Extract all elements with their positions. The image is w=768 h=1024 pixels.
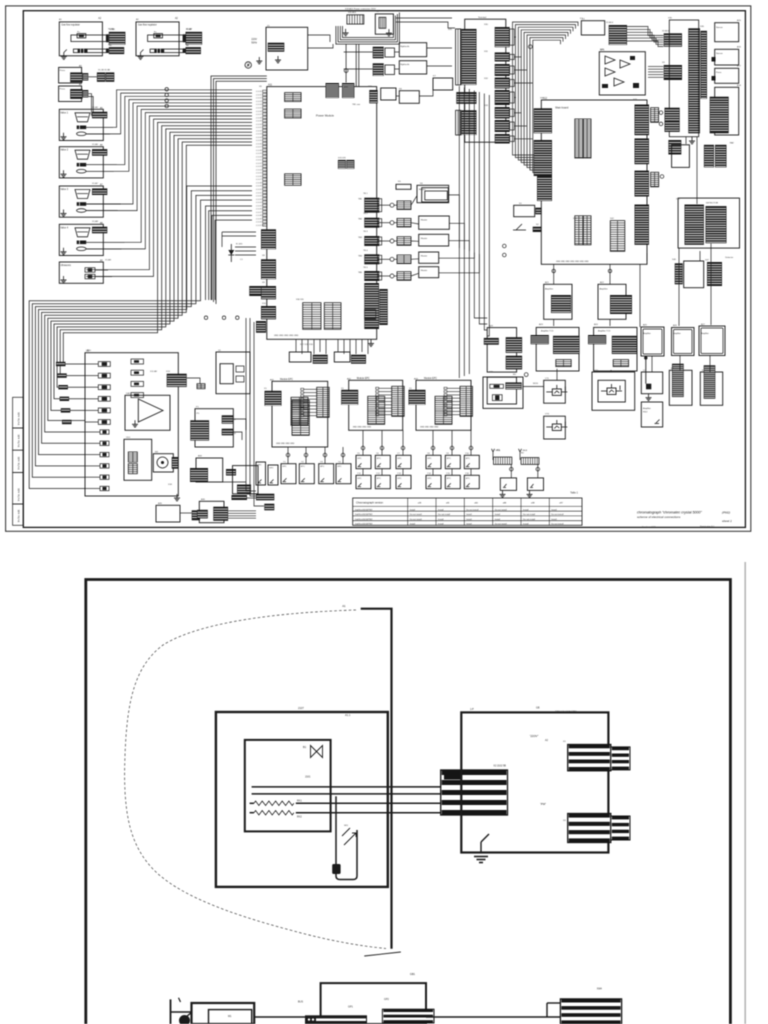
terminal pair 4 wire [514, 82, 532, 84]
transistor box t2 inner [598, 380, 625, 402]
svg-text:Install: Install [466, 513, 472, 516]
connector X51 [664, 65, 682, 80]
pump inner box [209, 1010, 252, 1024]
svg-text:X19 A11 Power connector 220V: X19 A11 Power connector 220V [345, 8, 376, 11]
svg-text:Install: Install [466, 518, 472, 521]
terminal block box [465, 19, 506, 142]
right edge connector row 2 [364, 218, 379, 228]
box under module2 r1 x396 [396, 455, 411, 468]
ground opamp [132, 420, 138, 427]
svg-text:J-1.09: J-1.09 [256, 218, 263, 220]
svg-text:Heater: Heater [421, 219, 428, 222]
dark pill row2 box A [78, 49, 88, 53]
ground mid [343, 29, 349, 36]
svg-text:J-1.08: J-1.08 [256, 183, 263, 185]
table caption [570, 491, 578, 494]
svg-text:X1.A7: X1.A7 [92, 182, 99, 185]
mid dark connector pair [237, 485, 251, 495]
wire row 2 to right bus [449, 223, 464, 249]
left connector row 1 [56, 362, 66, 366]
bottom chain box 2 [199, 501, 224, 522]
switch symbol [516, 224, 522, 230]
svg-text:EPC: EPC [320, 466, 325, 468]
P-box right conn 2 [222, 429, 234, 436]
rod sensor 2 box [700, 372, 722, 405]
terminal left comb C [456, 110, 461, 135]
left edge double column mid [534, 140, 552, 176]
svg-text:Press: Press [60, 88, 66, 91]
wires detector to amplifiers [678, 249, 680, 327]
mating connector row 4 [378, 255, 382, 263]
svg-text:Power Module: Power Module [316, 114, 334, 118]
svg-text:J-1.01: J-1.01 [256, 95, 263, 97]
svg-text:X1.A6: X1.A6 [92, 143, 99, 146]
Y antenna symbol 2 [519, 449, 522, 456]
cable row2 in box B [150, 49, 183, 53]
svg-text:J-1.07: J-1.07 [256, 147, 263, 149]
small dark square left of right box3 [712, 76, 716, 81]
controller right connector 1b [611, 747, 630, 770]
transformer hatch in optocoupler [379, 17, 386, 28]
title block text [637, 511, 732, 529]
pill row1 in Valve 4 [77, 241, 87, 245]
module box M1 [272, 381, 328, 447]
connector at top-right of Valve 4 [92, 227, 107, 234]
pill lower row 6 in igniter box [100, 486, 109, 490]
svg-text:“220V”: “220V” [529, 734, 538, 738]
M3 right column [460, 386, 473, 416]
M1 left edge connector [265, 391, 282, 406]
svg-text:J-1.03: J-1.03 [256, 166, 263, 168]
box under module2 r1 x375.3 [375, 455, 390, 468]
mid connector row 2 [397, 218, 411, 227]
svg-text:EPC: EPC [428, 478, 433, 480]
resistor r2 [492, 395, 502, 401]
svg-text:X1 A9: X1 A9 [186, 28, 193, 31]
svg-text:J-1.02: J-1.02 [256, 98, 263, 100]
igniter wire with dot [644, 356, 647, 384]
oscillator inner box [220, 364, 233, 384]
wire fan to valve boxes [86, 90, 252, 277]
trapezoid connector in Valve 2 [75, 150, 90, 159]
lower cluster box [684, 261, 704, 288]
svg-text:EPC: EPC [398, 458, 403, 460]
pill row1 ultrasonic [85, 268, 95, 273]
left connector row 2 [57, 373, 66, 377]
bottom chain box 1 [156, 505, 180, 522]
main board bottom inner labels [556, 261, 589, 263]
svg-text:R LED: R LED [236, 244, 243, 246]
ground optocoupler [386, 29, 392, 36]
svg-text:Install: Install [438, 523, 444, 526]
M1 right pin fan [301, 388, 317, 416]
inner column pair right [324, 303, 341, 330]
crystal oscillator box [599, 52, 645, 95]
connector at top-right of Valve 1 [92, 112, 107, 119]
relay box row 5 [419, 267, 439, 278]
connector at top-right of Valve 2 [92, 149, 107, 156]
svg-text:Amplifier: Amplifier [673, 332, 681, 335]
svg-text:TB 1: TB 1 [363, 193, 368, 195]
resistor box right inner [487, 377, 516, 404]
wire row 1 to right bus [449, 195, 460, 248]
lower cluster column a [675, 263, 683, 284]
junction circle row 5 [390, 274, 394, 278]
svg-text:Gas flow regulator: Gas flow regulator [138, 24, 157, 27]
svg-text:2nd/Krist5000/PM2: 2nd/Krist5000/PM2 [355, 518, 374, 521]
svg-text:SH-B: SH-B [523, 450, 528, 452]
ground in Valve 2 [61, 170, 67, 177]
left bottom connector pair 2 [264, 504, 274, 511]
FPTC right conn [226, 469, 236, 476]
wires row 2 [379, 222, 390, 224]
rod sensor 2 rod [704, 365, 716, 398]
wire row 4 to right bus [439, 253, 475, 259]
wires K1 cluster [627, 27, 663, 47]
wire FPTC to right [223, 481, 246, 483]
svg-text:Inv.No. subl.: Inv.No. subl. [18, 509, 21, 522]
opamp 1 in crystal box [605, 56, 615, 64]
svg-text:EPC: EPC [358, 478, 363, 480]
small conn mid-left c [285, 174, 302, 186]
wires tall box down to detector [685, 137, 687, 144]
P-right edge column 1 [506, 337, 522, 353]
TRM box 3 [433, 78, 453, 90]
right edge connector row 3 [364, 236, 379, 246]
wire lower row 1 [85, 431, 100, 433]
diode component cluster left of power module [222, 232, 256, 262]
igniter amp box [641, 372, 662, 394]
svg-text:50Hz: 50Hz [251, 42, 257, 45]
pill row1 in Valve 2 [77, 163, 87, 167]
wires row 5 [379, 275, 390, 277]
amp row2 b bottom conn [613, 360, 628, 367]
svg-text:Developer KXT: Developer KXT [642, 527, 656, 529]
svg-text:J-1.03: J-1.03 [256, 134, 263, 136]
svg-text:X1.A5: X1.A5 [92, 106, 99, 109]
box under module2 r2 x396 [396, 475, 411, 488]
wires out of Valve 2 [86, 164, 117, 166]
column in right tall box [710, 97, 729, 134]
transistor box t3 [544, 416, 566, 439]
terminal right connector pair 8 [495, 134, 510, 144]
amp row2 a dark block [553, 336, 580, 354]
mating connector D [83, 90, 89, 97]
wires out of Valve 3 [86, 203, 121, 205]
svg-text:Install: Install [523, 523, 529, 526]
svg-text:X11 A9: X11 A9 [150, 370, 158, 373]
svg-text:J-1.02: J-1.02 [256, 163, 263, 165]
terminal right connector pair 3 [495, 64, 510, 76]
box under module3 r2 x464.3 [464, 475, 479, 488]
ultrasonic box A9 [59, 262, 103, 283]
right edge dark block 1 [635, 105, 650, 136]
opamp 2 in crystal box [605, 68, 615, 76]
outside conn left [535, 208, 541, 215]
top small box on edge [396, 184, 411, 189]
terminal left column B [456, 92, 476, 104]
transistor box t1 [544, 380, 566, 403]
terminal pair 5 wire [514, 97, 516, 99]
GB box [321, 983, 426, 1024]
page 2 drawing frame [86, 580, 731, 1024]
relay box row 4 [419, 252, 439, 263]
FPTC box [196, 458, 223, 482]
M3 center column [435, 396, 452, 424]
main board right row4 conn [651, 172, 659, 187]
power module main box A11 [267, 87, 377, 340]
svg-text:Do not install: Do not install [551, 523, 564, 526]
amp row2 b dark block [612, 336, 637, 354]
controller right connector 1 [568, 745, 611, 771]
ground under power module [368, 340, 374, 347]
controller right connector 2 [568, 814, 611, 843]
resistor box right outer [483, 377, 523, 408]
detector cluster box [678, 198, 739, 248]
left edge connector 2 [261, 259, 276, 279]
box under comb 2 [527, 478, 543, 491]
svg-text:TB1 one: TB1 one [352, 104, 361, 106]
bottom right connector [560, 999, 621, 1024]
svg-text:X1.1B X1.8B: X1.1B X1.8B [98, 69, 111, 71]
left connector row 4 [60, 397, 70, 401]
junction circle row 2 [390, 221, 394, 225]
svg-text:X1 A14: X1 A14 [606, 21, 614, 24]
pill row 2 in igniter box [98, 373, 110, 378]
svg-text:J-1.00: J-1.00 [256, 156, 263, 158]
oscillator box [216, 352, 250, 394]
svg-text:J-1.08: J-1.08 [256, 215, 263, 217]
right edge dark block 3 [635, 171, 650, 197]
small parts box [124, 439, 152, 480]
right edge connector row 1 [364, 198, 379, 213]
wires mid connector [187, 378, 200, 384]
wire row 5 to right bus [439, 254, 480, 273]
mid connector row 5 [397, 272, 411, 281]
connector right of box B upper [186, 32, 203, 45]
svg-text:J-1.05: J-1.05 [256, 205, 263, 207]
left edge connector 3 [261, 286, 276, 299]
svg-text:GND GND GND GND GND: GND GND GND GND GND [274, 335, 299, 337]
wrap bus junction circle [528, 45, 532, 49]
mid small conn [197, 384, 205, 389]
valve symbol in sensor box [311, 746, 323, 758]
svg-text:TB 2: TB 2 [363, 213, 368, 215]
svg-text:EPC: EPC [283, 466, 288, 468]
left edge connector 4 [261, 306, 276, 319]
terminal pair 3 wire [514, 69, 527, 71]
svg-text:Amplifier: Amplifier [600, 288, 608, 291]
svg-text:Detector: Detector [725, 256, 733, 259]
lower cluster column b [707, 262, 722, 286]
svg-text:J-1.00: J-1.00 [256, 124, 263, 126]
svg-text:GP1: GP1 [348, 1005, 353, 1008]
svg-text:J-1.05: J-1.05 [256, 140, 263, 142]
resistor RK2 [254, 811, 294, 816]
pill row 6 in igniter box [98, 420, 110, 425]
arrow marks near branch [342, 828, 356, 845]
svg-text:DETECTOR: DETECTOR [706, 203, 718, 205]
relay cluster 2 box [399, 61, 426, 74]
bus junction dots [165, 88, 168, 91]
svg-text:J-1.05: J-1.05 [256, 108, 263, 110]
svg-text:Hydraulic: Hydraulic [400, 45, 410, 48]
controller top labels [470, 708, 474, 711]
svg-text:J-1.01: J-1.01 [256, 160, 263, 162]
svg-text:Module EPC: Module EPC [357, 378, 370, 380]
pill row2 ultrasonic [85, 274, 95, 279]
svg-text:“PM”: “PM” [540, 802, 546, 806]
bottom wires [255, 1003, 560, 1017]
small box K1 [581, 21, 604, 35]
valve box Valve 1 [59, 109, 103, 140]
pill lower row 3 in igniter box [100, 452, 109, 456]
flow-regulator box B [136, 22, 179, 56]
svg-text:J-1.09: J-1.09 [256, 153, 263, 155]
pill row1 in Valve 1 [77, 126, 87, 130]
svg-text:Install: Install [438, 508, 444, 511]
svg-text:1-P: 1-P [470, 708, 474, 711]
svg-text:J-1.03: J-1.03 [256, 101, 263, 103]
ground mains box [275, 56, 281, 63]
svg-text:A1: A1 [342, 604, 346, 608]
left connector row 6 [62, 420, 72, 424]
svg-text:scheme of electrical connectio: scheme of electrical connections [637, 515, 681, 519]
inner column 1 [575, 216, 583, 245]
band to bottom-left connector verticals [246, 318, 264, 506]
optocoupler box [375, 14, 393, 34]
pill row2 in Valve 4 [77, 247, 87, 251]
svg-text:EPC: EPC [466, 458, 471, 460]
wires combs to boxes [510, 464, 512, 478]
svg-text:Inv.No. subl.: Inv.No. subl. [18, 456, 21, 469]
resistor r1 [490, 384, 504, 388]
cable row2 in box A [73, 49, 106, 53]
svg-text:Amplifier: Amplifier [643, 407, 651, 410]
svg-text:Table 1: Table 1 [570, 491, 578, 494]
trapezoid connector in Valve 3 [75, 190, 90, 199]
svg-text:EPC: EPC [377, 478, 382, 480]
row3 cluster box [672, 145, 690, 168]
bottom stub wires of power module [296, 339, 368, 354]
FID2 ground mark [655, 420, 660, 424]
svg-text:TB 4: TB 4 [363, 250, 368, 252]
left edge connector 5 [256, 321, 266, 333]
svg-text:J-1.00: J-1.00 [256, 91, 263, 93]
TRM connector on power module right edge [369, 90, 377, 103]
wires ultrasonic [95, 269, 108, 271]
diagonal arrow GB [364, 952, 401, 956]
wire row 3 to right bus [449, 241, 470, 251]
mating connector C [83, 73, 89, 80]
wire lower row 2 [85, 442, 100, 444]
inner column 2 [610, 221, 625, 252]
wires from mid pair [247, 493, 256, 495]
ground near power module top [256, 57, 262, 64]
sub conn under module left [313, 355, 328, 364]
terminal pair 8 wire [514, 138, 532, 140]
amplifier small box 3 [699, 326, 725, 356]
wire lower row 3 [85, 454, 100, 456]
central dark connector pair in power module [338, 160, 346, 169]
svg-text:2nd/Krist5000/PM2: 2nd/Krist5000/PM2 [355, 523, 374, 526]
amp row1 a dark block [551, 295, 571, 313]
junction circle mid top [344, 69, 348, 73]
mid connector row 3 [397, 237, 411, 246]
svg-text:J-1.04: J-1.04 [256, 169, 263, 171]
svg-text:J-1.03: J-1.03 [256, 199, 263, 201]
svg-text:EPC: EPC [358, 458, 363, 460]
svg-text:EPC: EPC [338, 466, 343, 468]
junction circle row 1 [390, 203, 394, 207]
svg-text:TB 3: TB 3 [363, 231, 368, 233]
box under module3 r1 x445.3 [445, 455, 460, 468]
relay box row 1 [417, 185, 449, 202]
terminal left comb A [456, 29, 461, 85]
svg-text:Amplifier: Amplifier [701, 332, 709, 335]
small conn mid-left b [285, 109, 302, 118]
svg-text:Do not install: Do not install [410, 518, 423, 521]
svg-text:Do not install: Do not install [410, 513, 423, 516]
mid connector big [167, 374, 187, 387]
box under module2 r1 x356 [356, 455, 371, 468]
svg-text:J-1.06: J-1.06 [256, 143, 263, 145]
controller right connector 2b [611, 816, 630, 840]
svg-text:GND GND GND GND: GND GND GND GND [420, 426, 439, 428]
svg-text:GP2: GP2 [384, 998, 389, 1001]
svg-text:EPC: EPC [377, 458, 382, 460]
TRM small box [381, 88, 396, 100]
svg-text:Do not install: Do not install [523, 518, 536, 521]
svg-text:Valve 4: Valve 4 [60, 226, 68, 229]
svg-text:J-1.02: J-1.02 [256, 196, 263, 198]
pill row2 in Valve 1 [77, 132, 87, 136]
thermostat label [342, 604, 346, 608]
wires crystal to X51 [648, 67, 663, 78]
box under module3 r1 x464.3 [464, 455, 479, 468]
mid-column small elements in igniter box [131, 359, 144, 364]
junction circle under comb 2 [536, 467, 540, 471]
svg-text:GB1: GB1 [410, 972, 416, 976]
svg-text:GND GND GND GND: GND GND GND GND [276, 443, 295, 445]
M3 right pin fan [444, 387, 460, 415]
resistor RK1 [254, 801, 294, 806]
svg-text:EPC: EPC [270, 468, 275, 470]
svg-text:Install: Install [438, 518, 444, 521]
ground under igniter amp box [646, 394, 652, 401]
terminal right connector pair 5 [495, 90, 510, 105]
flow-regulator box A [59, 22, 102, 56]
fuse element row1 box B [154, 34, 163, 38]
svg-text:Heater: Heater [421, 269, 428, 272]
fan box right conn [172, 457, 179, 469]
connector at top-right of Valve 3 [92, 188, 107, 195]
outside small box left [514, 205, 535, 216]
svg-text:J-1.04: J-1.04 [256, 104, 263, 106]
terminal right connector pair 6 [495, 107, 510, 119]
thermostat box [216, 712, 388, 887]
M3 left edge connector [409, 390, 426, 405]
terminal pair 6 wire [514, 112, 521, 114]
trapezoid connector in Valve 1 [75, 113, 90, 122]
wires row 1 [379, 204, 390, 206]
svg-text:Amplifier TCD: Amplifier TCD [541, 330, 554, 333]
box under module3 r2 x445.3 [445, 475, 460, 488]
Y antenna symbol 1 [492, 449, 495, 456]
svg-text:J-1.04: J-1.04 [256, 137, 263, 139]
svg-text:EPC: EPC [428, 458, 433, 460]
ground in Valve 4 [61, 248, 67, 255]
